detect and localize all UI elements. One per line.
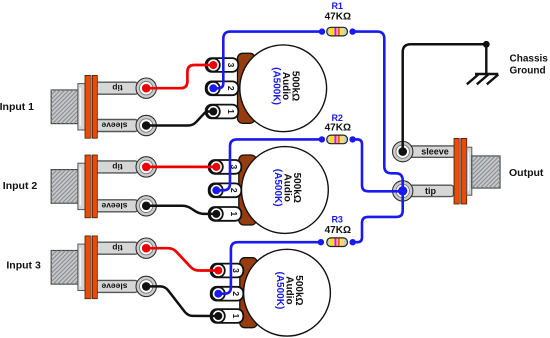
svg-text:R3: R3	[331, 214, 343, 224]
svg-text:tip: tip	[112, 162, 122, 172]
svg-text:1: 1	[231, 314, 241, 319]
input jack J3 sleeve terminal	[136, 276, 156, 296]
svg-text:1: 1	[226, 109, 236, 114]
input jack J2 sleeve lug	[93, 200, 138, 212]
svg-text:R2: R2	[331, 113, 343, 123]
svg-text:tip: tip	[112, 83, 122, 93]
input jack J3 mounting plate	[85, 236, 97, 299]
input jack J1 mounting plate	[85, 75, 97, 138]
input jack J2 mounting plate	[85, 155, 97, 218]
potentiometer VR3 terminal lug pin 1	[211, 309, 244, 323]
svg-text:1: 1	[229, 212, 239, 217]
potentiometer VR1 can	[240, 45, 327, 132]
potentiometer VR2 pin 3 solder eye	[210, 160, 223, 173]
potentiometer VR1 pin 1 solder eye	[207, 105, 220, 118]
junction node R1 right	[349, 28, 355, 34]
input jack J3 washer	[78, 244, 85, 290]
junction node R3 left	[318, 239, 324, 245]
resistor R1 body	[327, 27, 348, 36]
resistor R1 reference label	[331, 1, 343, 11]
resistor R3 value label	[325, 225, 351, 236]
potentiometer VR2 value label 500kΩ Audio (A500K)	[272, 169, 302, 207]
junction node R3 right	[350, 239, 356, 245]
svg-text:sleeve: sleeve	[101, 281, 127, 291]
chassis ground symbol	[467, 44, 499, 84]
svg-text:Input 2: Input 2	[3, 180, 38, 192]
potentiometer VR1 pin 2 solder eye	[207, 82, 220, 95]
potentiometer VR2 terminal lug pin 2	[209, 183, 242, 197]
output label	[509, 167, 544, 179]
input jack J1 threaded barrel	[51, 90, 78, 124]
potentiometer VR2 can	[242, 147, 329, 234]
potentiometer VR1 terminal lug pin 3	[206, 58, 239, 72]
wire blue VR3 pin 2 to R3	[218, 242, 321, 294]
junction node chassis	[483, 41, 490, 48]
potentiometer VR2 body	[239, 155, 256, 225]
input 3 label	[6, 260, 41, 272]
svg-text:500kΩAudio(A500K): 500kΩAudio(A500K)	[270, 67, 300, 105]
wire blue VR2 pin 2 to R2	[216, 139, 322, 190]
svg-text:Output: Output	[509, 167, 544, 179]
wire blue R1 to output tip node	[353, 32, 403, 191]
input jack J1 sleeve terminal	[136, 115, 156, 135]
wire black J1 sleeve to VR1 pin 1	[146, 112, 211, 126]
wire red J2 tip to VR2 pin 3	[146, 166, 216, 169]
output jack J4 sleeve terminal	[393, 141, 413, 161]
resistor R3 body	[327, 238, 348, 247]
svg-text:47KΩ: 47KΩ	[325, 225, 351, 236]
svg-text:Chassis: Chassis	[510, 54, 549, 65]
input jack J2 threaded barrel	[51, 170, 78, 204]
svg-text:sleeve: sleeve	[101, 121, 127, 131]
input jack J1 washer	[78, 84, 85, 130]
potentiometer VR3 terminal lug pin 2	[211, 287, 244, 301]
input 1 label	[0, 101, 34, 113]
input jack J3 tip terminal	[136, 238, 156, 258]
potentiometer VR1 value label 500kΩ Audio (A500K)	[270, 67, 300, 105]
junction node R2 right	[349, 136, 355, 142]
junction node R1 left	[319, 28, 325, 34]
wire red J1 tip to VR1 pin 3	[146, 65, 213, 88]
svg-text:47KΩ: 47KΩ	[325, 12, 351, 23]
svg-text:2: 2	[229, 188, 239, 193]
potentiometer VR2 terminal lug pin 3	[209, 160, 242, 174]
resistor R1 value label	[325, 12, 351, 23]
junction node output tip	[398, 186, 407, 195]
svg-text:500kΩAudio(A500K): 500kΩAudio(A500K)	[274, 272, 304, 310]
potentiometer VR3 value label 500kΩ Audio (A500K)	[274, 272, 304, 310]
output jack J4 threaded barrel	[472, 156, 500, 188]
input jack J1 tip terminal	[136, 78, 156, 98]
input jack J2 sleeve terminal	[136, 196, 156, 216]
output jack J4 tip terminal	[393, 181, 413, 201]
svg-text:sleeve: sleeve	[101, 201, 127, 211]
potentiometer VR3 pin 1 solder eye	[212, 310, 225, 323]
resistor R3 reference label	[331, 214, 343, 224]
potentiometer VR1 terminal lug pin 2	[206, 81, 239, 95]
wire black J3 sleeve to VR3 pin 1	[146, 286, 215, 316]
input jack J2 tip lug	[93, 161, 138, 173]
wire blue VR1 pin 2 to R1	[213, 32, 322, 89]
potentiometer VR3 body	[240, 258, 257, 328]
wire black output sleeve to chassis ground	[403, 44, 487, 151]
wire blue R3 to output tip node	[353, 191, 403, 242]
svg-text:tip: tip	[112, 243, 122, 253]
svg-text:500kΩAudio(A500K): 500kΩAudio(A500K)	[272, 169, 302, 207]
potentiometer VR3 pin 2 solder eye	[212, 287, 225, 300]
potentiometer VR2 pin 1 solder eye	[210, 207, 223, 220]
input jack J3 threaded barrel	[51, 251, 78, 285]
input jack J2 washer	[78, 163, 85, 209]
resistor R2 body	[327, 135, 348, 144]
wire blue R2 to output tip node	[353, 139, 403, 191]
input jack J3 tip lug	[93, 242, 138, 254]
wire red J3 tip to VR3 pin 3	[146, 248, 219, 270]
resistor R2 value label	[325, 123, 351, 134]
input 2 label	[3, 180, 38, 192]
wire black J2 sleeve to VR2 pin 1	[146, 206, 214, 214]
resistor R2 reference label	[331, 113, 343, 123]
input jack J1 sleeve lug	[93, 120, 138, 132]
potentiometer VR1 body	[238, 53, 256, 123]
potentiometer VR3 pin 3 solder eye	[212, 264, 225, 277]
potentiometer VR1 terminal lug pin 1	[206, 105, 239, 119]
potentiometer VR3 can	[244, 249, 331, 336]
svg-text:tip: tip	[425, 186, 436, 196]
output jack J4 tip lug	[407, 185, 454, 196]
potentiometer VR2 terminal lug pin 1	[209, 207, 242, 221]
output jack J4 mounting plate	[454, 138, 467, 204]
svg-text:Ground: Ground	[510, 66, 546, 77]
potentiometer VR2 pin 2 solder eye	[210, 184, 223, 197]
output jack J4 sleeve lug	[407, 146, 461, 157]
svg-text:sleeve: sleeve	[421, 147, 449, 157]
svg-text:2: 2	[231, 291, 241, 296]
potentiometer VR3 terminal lug pin 3	[211, 264, 244, 278]
output jack J4 washer	[467, 147, 472, 195]
chassis ground label	[510, 54, 549, 77]
svg-text:3: 3	[226, 63, 236, 68]
svg-text:3: 3	[231, 268, 241, 273]
junction node R2 left	[319, 136, 325, 142]
svg-text:Input 3: Input 3	[6, 260, 41, 272]
svg-text:47KΩ: 47KΩ	[325, 123, 351, 134]
input jack J3 sleeve lug	[93, 280, 138, 292]
svg-text:R1: R1	[331, 1, 343, 11]
svg-text:Input 1: Input 1	[0, 101, 34, 113]
potentiometer VR1 pin 3 solder eye	[207, 59, 220, 72]
input jack J1 tip lug	[93, 82, 138, 94]
input jack J2 tip terminal	[136, 157, 156, 177]
svg-text:2: 2	[226, 86, 236, 91]
